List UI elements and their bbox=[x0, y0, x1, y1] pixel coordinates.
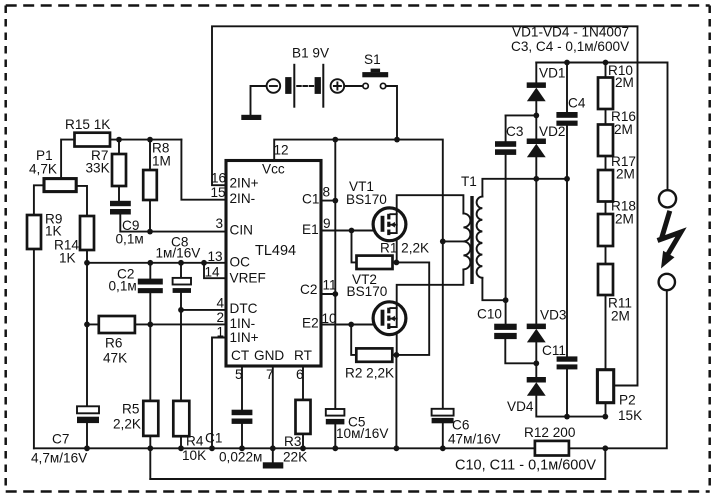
svg-text:C1: C1 bbox=[302, 192, 319, 207]
svg-text:C2: C2 bbox=[300, 282, 317, 297]
svg-text:2IN+: 2IN+ bbox=[230, 176, 259, 191]
switch S1 bbox=[362, 69, 388, 89]
wire +9V rail (pin 12 to transformer tap and C6) bbox=[274, 140, 443, 409]
wire VD3 cathode to secondary-top node bbox=[535, 179, 537, 324]
svg-text:C10: C10 bbox=[477, 307, 502, 322]
potentiometer P2 bbox=[597, 370, 613, 403]
diode VD1 bbox=[527, 82, 546, 88]
wire lower ground return rail bbox=[150, 448, 605, 479]
wire VT2 drain to primary bottom bbox=[397, 269, 464, 308]
svg-text:10: 10 bbox=[322, 311, 338, 326]
svg-text:2M: 2M bbox=[616, 167, 635, 182]
svg-text:11: 11 bbox=[323, 278, 337, 293]
svg-text:15K: 15K bbox=[618, 408, 642, 423]
svg-text:R4: R4 bbox=[186, 434, 204, 449]
svg-text:VD2: VD2 bbox=[539, 124, 565, 139]
svg-text:47м/16V: 47м/16V bbox=[448, 432, 500, 447]
diode VD2 bbox=[527, 139, 546, 145]
wire main ground bus bbox=[34, 447, 535, 449]
resistor R9 bbox=[27, 215, 41, 249]
svg-text:S1: S1 bbox=[364, 52, 381, 67]
resistor R3 bbox=[302, 366, 304, 448]
svg-text:15: 15 bbox=[211, 185, 226, 200]
wire sources to ground bus bbox=[395, 355, 397, 448]
diode VD4 bbox=[527, 377, 546, 383]
ground (pin 7) bbox=[263, 462, 284, 468]
wire battery minus to ground bbox=[251, 86, 267, 115]
svg-text:0,1м: 0,1м bbox=[116, 232, 144, 247]
transformer T1 primary winding bbox=[463, 213, 470, 269]
svg-text:Vcc: Vcc bbox=[262, 162, 285, 177]
potentiometer P1 bbox=[44, 179, 76, 192]
wire VT1 drain to primary top bbox=[397, 195, 464, 214]
resistor R14 bbox=[80, 216, 94, 250]
wire P1 right to R14 bbox=[76, 186, 87, 216]
wire battery plus to S1 bbox=[344, 85, 363, 87]
resistor R18 bbox=[598, 214, 613, 246]
wire feedback net: pin 16 to top rail to P2 wiper bbox=[212, 26, 638, 385]
wire node R15-R7-R8 bbox=[110, 139, 181, 141]
op-amp U1 TL494 body bbox=[226, 161, 321, 367]
svg-text:10м/16V: 10м/16V bbox=[336, 426, 388, 441]
wire secondary bottom lead bbox=[482, 278, 505, 300]
svg-text:22K: 22K bbox=[283, 450, 307, 465]
transformer T1 core bbox=[470, 196, 473, 284]
svg-text:R2 2,2K: R2 2,2K bbox=[345, 366, 394, 381]
wire S1 to +9V rail bbox=[386, 86, 397, 140]
svg-text:2M: 2M bbox=[615, 75, 634, 90]
wire VT2 source to R2 node bbox=[396, 335, 398, 355]
capacitor C10 bbox=[505, 300, 536, 363]
wire P2 bottom bbox=[605, 403, 607, 417]
resistor R16 bbox=[598, 125, 613, 157]
svg-text:R6: R6 bbox=[105, 336, 122, 351]
wire pin 8 stub bbox=[321, 200, 335, 202]
svg-text:R15 1K: R15 1K bbox=[65, 117, 110, 132]
svg-text:10K: 10K bbox=[182, 448, 206, 463]
wire VD3-VD4 node bbox=[535, 342, 537, 377]
svg-text:2M: 2M bbox=[611, 309, 630, 324]
svg-text:R1 2,2K: R1 2,2K bbox=[380, 241, 429, 256]
resistor R2 bbox=[356, 348, 392, 361]
wire pin 11 stub bbox=[321, 293, 335, 295]
svg-text:VD4: VD4 bbox=[507, 399, 534, 414]
wire pin 9 to VT1 gate bbox=[321, 230, 383, 232]
svg-text:CT: CT bbox=[231, 348, 249, 363]
wire centre tap bbox=[443, 240, 464, 242]
wire pin 10 to VT2 gate bbox=[321, 324, 383, 326]
wire VD2 anode to secondary-top line bbox=[535, 157, 537, 179]
svg-text:C3: C3 bbox=[506, 124, 523, 139]
wire secondary top lead bbox=[482, 179, 567, 197]
diode VD3 bbox=[527, 324, 546, 330]
battery B1 9V bbox=[267, 64, 345, 108]
capacitor C7 bbox=[77, 406, 99, 413]
wire R5 bottom through bus to lower rail bbox=[149, 436, 151, 479]
wire Vcc branch to pins 8 and 11 and C5 bbox=[334, 140, 336, 409]
wire VD1 top bbox=[535, 63, 537, 83]
resistor R15 bbox=[75, 133, 111, 147]
resistor R11 bbox=[598, 264, 613, 295]
resistor R1 bbox=[357, 256, 393, 269]
svg-text:5: 5 bbox=[235, 367, 243, 382]
svg-text:14: 14 bbox=[205, 265, 221, 280]
resistor R4 bbox=[173, 401, 189, 436]
svg-text:C11: C11 bbox=[542, 343, 566, 358]
svg-text:2M: 2M bbox=[614, 122, 633, 137]
wire pin 1 to ground bus bbox=[212, 338, 226, 449]
svg-text:C6: C6 bbox=[452, 418, 469, 433]
wire gate node to R2 left bbox=[351, 325, 356, 355]
resistor R8 bbox=[149, 140, 151, 232]
capacitor C6 bbox=[432, 409, 454, 416]
wire pin 4 DTC stub bbox=[181, 309, 226, 311]
electrode lower bbox=[659, 274, 675, 290]
wire pin 15 net to R8/R15 node bbox=[181, 140, 226, 200]
resistor R7 bbox=[118, 140, 120, 201]
capacitor C9 bbox=[110, 201, 131, 206]
svg-text:3: 3 bbox=[216, 216, 224, 231]
capacitor C11 bbox=[566, 179, 568, 417]
svg-text:12: 12 bbox=[274, 143, 289, 158]
svg-text:4,7м/16V: 4,7м/16V bbox=[31, 451, 87, 466]
resistor R17 bbox=[598, 170, 613, 202]
transistor VT1 BS170 bbox=[373, 208, 406, 241]
svg-text:1IN-: 1IN- bbox=[230, 316, 256, 331]
wire R14 bottom through R6 node to C7 bbox=[86, 250, 88, 406]
svg-text:E2: E2 bbox=[302, 316, 319, 331]
svg-text:C10, C11 - 0,1м/600V: C10, C11 - 0,1м/600V bbox=[455, 458, 596, 474]
svg-text:GND: GND bbox=[254, 348, 284, 363]
svg-text:VD3: VD3 bbox=[540, 308, 566, 323]
svg-text:2,2K: 2,2K bbox=[113, 417, 141, 432]
wire VD4 anode line bbox=[536, 395, 605, 416]
capacitor C3 and link VD1/VD2 node to secondary bottom bbox=[505, 115, 507, 300]
transformer T1 secondary winding bbox=[477, 197, 483, 278]
svg-text:16: 16 bbox=[211, 171, 226, 186]
svg-text:T1: T1 bbox=[461, 174, 477, 189]
svg-text:RT: RT bbox=[294, 348, 312, 363]
ground (battery) bbox=[241, 115, 261, 120]
capacitor C4 bbox=[566, 63, 568, 179]
capacitor C1 bbox=[241, 366, 243, 448]
svg-text:2: 2 bbox=[217, 310, 225, 325]
svg-text:C7: C7 bbox=[52, 432, 69, 447]
svg-text:DTC: DTC bbox=[230, 301, 258, 316]
wire bbox=[605, 202, 607, 215]
svg-text:33K: 33K bbox=[86, 161, 110, 176]
wire R1 right loop to R2 right bbox=[392, 262, 429, 355]
wire VT1 source to R1 node bbox=[396, 241, 398, 263]
electrode upper bbox=[659, 190, 676, 207]
svg-text:C3, C4 - 0,1м/600V: C3, C4 - 0,1м/600V bbox=[511, 39, 629, 54]
svg-text:2IN-: 2IN- bbox=[230, 191, 256, 206]
resistor R6 bbox=[87, 323, 226, 325]
svg-text:CIN: CIN bbox=[230, 223, 253, 238]
wire bus right of R12 up to lower electrode bbox=[569, 290, 667, 448]
svg-text:47K: 47K bbox=[103, 351, 127, 366]
svg-text:E1: E1 bbox=[302, 222, 319, 237]
transistor VT2 BS170 bbox=[373, 302, 406, 335]
resistor R5 bbox=[143, 401, 158, 436]
resistor R10 bbox=[598, 78, 613, 110]
svg-text:13: 13 bbox=[208, 249, 223, 264]
wire pin 14 branch bbox=[204, 263, 226, 278]
wire bbox=[605, 156, 607, 170]
svg-text:P2: P2 bbox=[619, 393, 636, 408]
svg-text:0,1м: 0,1м bbox=[109, 279, 137, 294]
capacitor C8 bbox=[180, 263, 182, 401]
svg-text:8: 8 bbox=[323, 185, 331, 200]
svg-text:B1 9V: B1 9V bbox=[292, 46, 329, 61]
wire R9 to ground bus bbox=[33, 249, 35, 448]
svg-text:R3: R3 bbox=[284, 434, 301, 449]
svg-text:C4: C4 bbox=[568, 96, 586, 111]
wire R11 to P2 bbox=[605, 295, 607, 370]
resistor R12 bbox=[535, 441, 569, 456]
wire P1 left to R9 bbox=[34, 185, 44, 215]
wire chain top stub bbox=[605, 63, 607, 78]
svg-text:6: 6 bbox=[296, 367, 304, 382]
svg-text:1IN+: 1IN+ bbox=[230, 330, 259, 345]
wire bbox=[605, 109, 607, 125]
svg-text:VREF: VREF bbox=[230, 271, 266, 286]
svg-text:R5: R5 bbox=[122, 402, 139, 417]
svg-text:2M: 2M bbox=[615, 212, 634, 227]
svg-text:1: 1 bbox=[217, 325, 225, 340]
svg-text:4: 4 bbox=[217, 296, 225, 311]
wire bbox=[605, 246, 607, 264]
svg-text:VD1: VD1 bbox=[539, 66, 565, 81]
svg-text:9: 9 bbox=[323, 216, 331, 231]
svg-text:R12 200: R12 200 bbox=[524, 425, 576, 440]
svg-text:1K: 1K bbox=[59, 251, 76, 266]
svg-text:VD1-VD4 - 1N4007: VD1-VD4 - 1N4007 bbox=[512, 25, 629, 40]
svg-text:1м/16V: 1м/16V bbox=[156, 246, 201, 261]
svg-text:OC: OC bbox=[230, 255, 251, 270]
wire VREF divider line (pins 13/14) bbox=[87, 262, 226, 264]
spark gap arrow bbox=[658, 211, 682, 254]
svg-text:TL494: TL494 bbox=[255, 243, 296, 259]
wire pin 3 CIN line bbox=[120, 215, 226, 232]
svg-text:4,7K: 4,7K bbox=[29, 162, 57, 177]
wire gate node to R1 left bbox=[352, 231, 357, 263]
svg-text:BS170: BS170 bbox=[347, 284, 388, 299]
capacitor C2 bbox=[149, 263, 151, 401]
svg-text:1M: 1M bbox=[152, 154, 171, 169]
svg-text:0,022м: 0,022м bbox=[219, 450, 262, 465]
wire R15 to P1 wiper bbox=[61, 140, 74, 177]
svg-text:7: 7 bbox=[266, 367, 274, 382]
wire pin 7 to ground bbox=[272, 366, 274, 462]
svg-text:C1: C1 bbox=[205, 431, 222, 446]
wire VD1-VD2 node bbox=[506, 101, 537, 138]
wire HV top line to upper electrode bbox=[536, 63, 667, 191]
svg-text:BS170: BS170 bbox=[346, 192, 387, 207]
capacitor C5 bbox=[326, 409, 345, 416]
svg-text:1K: 1K bbox=[45, 224, 62, 239]
